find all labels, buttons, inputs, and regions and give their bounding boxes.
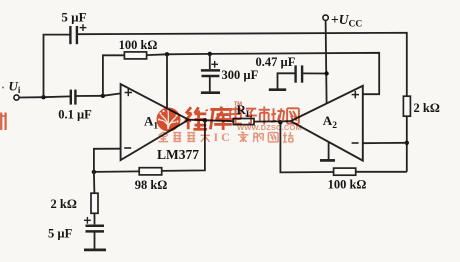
- svg-text:I C: I C: [214, 130, 230, 144]
- svg-text:0.47 µF: 0.47 µF: [256, 55, 296, 69]
- svg-text:LM377: LM377: [157, 147, 199, 162]
- svg-text:100 kΩ: 100 kΩ: [328, 178, 367, 192]
- svg-text:WWW.DZSC.COM: WWW.DZSC.COM: [237, 123, 302, 132]
- svg-text:5 µF: 5 µF: [48, 227, 73, 241]
- svg-text:300 µF: 300 µF: [222, 68, 259, 82]
- svg-text:2 kΩ: 2 kΩ: [414, 101, 440, 115]
- svg-text:5 µF: 5 µF: [61, 10, 86, 25]
- svg-text:0.1 µF: 0.1 µF: [58, 108, 92, 122]
- svg-text:98 kΩ: 98 kΩ: [135, 178, 168, 192]
- svg-text:100 kΩ: 100 kΩ: [119, 38, 158, 52]
- svg-text:2 kΩ: 2 kΩ: [51, 197, 77, 211]
